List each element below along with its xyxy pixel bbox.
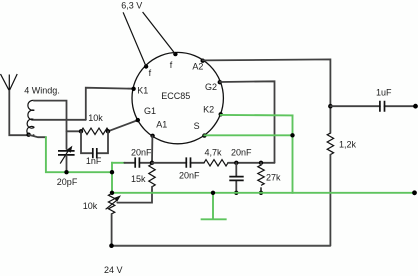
svg-text:24 V: 24 V xyxy=(104,265,123,275)
wire K2 green xyxy=(221,114,293,117)
node 1uF tap xyxy=(328,104,333,109)
svg-text:K2: K2 xyxy=(203,104,214,114)
wire green stub to C3 xyxy=(112,162,124,164)
svg-text:S: S xyxy=(194,121,200,131)
resistor R5 1,2k xyxy=(327,133,333,155)
wire heater left xyxy=(123,12,146,66)
pin A1 xyxy=(150,134,154,138)
ground xyxy=(202,193,226,220)
wire coil tap lead xyxy=(34,119,86,121)
tube U1 ECC85 envelope xyxy=(132,52,223,143)
wire diagonal R1 to G1 xyxy=(108,120,138,131)
resistor R3 4,7k xyxy=(204,160,228,166)
node S/K2 join xyxy=(290,133,294,137)
resistor R1 10k grid leak xyxy=(67,128,110,134)
svg-text:20nF: 20nF xyxy=(231,147,252,157)
potentiometer R6 10k xyxy=(106,194,121,246)
node green rail right end xyxy=(412,190,417,195)
wire A2 to HT line xyxy=(203,59,331,133)
wire S green xyxy=(204,134,292,136)
node coil bottom junction xyxy=(26,133,30,137)
node C5 bottom xyxy=(234,191,238,195)
wire K1 to coil tap xyxy=(86,88,134,120)
svg-text:G1: G1 xyxy=(144,106,156,116)
resistor R2 15k xyxy=(149,163,155,190)
wire green tuned circuit net xyxy=(46,137,112,172)
svg-text:10k: 10k xyxy=(83,201,98,211)
capacitor C4 20nF xyxy=(152,157,204,167)
node X junction xyxy=(150,161,154,165)
pin A2 xyxy=(201,59,205,63)
svg-text:A1: A1 xyxy=(156,120,167,130)
node 20pF bottom xyxy=(64,170,68,174)
pin f left xyxy=(144,64,148,68)
svg-text:10k: 10k xyxy=(88,113,103,123)
svg-text:1,2k: 1,2k xyxy=(339,140,357,150)
capacitor C6 1uF xyxy=(330,101,415,112)
wire coil bottom to green net xyxy=(29,135,46,138)
svg-text:20nF: 20nF xyxy=(131,148,152,158)
node 27k top xyxy=(259,161,263,165)
pin K2 xyxy=(219,112,223,116)
variable capacitor C1 20pF plates xyxy=(58,146,75,173)
svg-text:6,3 V: 6,3 V xyxy=(121,1,142,11)
svg-text:ECC85: ECC85 xyxy=(161,91,190,101)
svg-text:20pF: 20pF xyxy=(57,177,78,187)
wire G2 drop xyxy=(220,81,275,163)
svg-text:1nF: 1nF xyxy=(86,156,102,166)
node pot bottom xyxy=(109,243,114,248)
inductor L1 4 windings xyxy=(27,100,34,135)
wire A1 drop xyxy=(151,136,153,163)
wire green vertical xyxy=(111,163,113,193)
svg-text:G2: G2 xyxy=(205,82,217,92)
svg-text:1uF: 1uF xyxy=(376,88,392,98)
svg-text:4,7k: 4,7k xyxy=(205,147,223,157)
node R1 left xyxy=(79,129,83,133)
node R1 right xyxy=(106,129,110,133)
wire coil top lead to tuning cap xyxy=(34,101,67,149)
antenna xyxy=(1,74,18,91)
node C5 top xyxy=(234,161,238,165)
wire heater right xyxy=(143,12,176,54)
capacitor C3 20nF xyxy=(124,157,152,167)
node green tee xyxy=(110,170,114,174)
wire 15k bottom to wiper xyxy=(117,190,152,203)
pin K1 xyxy=(131,87,135,91)
node pot top xyxy=(110,191,114,195)
node ground tap xyxy=(211,191,215,195)
svg-text:27k: 27k xyxy=(266,173,281,183)
svg-text:A2: A2 xyxy=(192,61,203,71)
wire 24V rail xyxy=(112,245,331,247)
green rail xyxy=(112,192,415,194)
resistor R4 27k xyxy=(258,163,264,193)
pin G1 xyxy=(136,118,140,122)
node 27k bottom xyxy=(259,191,263,195)
pin f top xyxy=(173,52,177,56)
pin G2 xyxy=(218,80,222,84)
wire 1,2k to 24V rail xyxy=(329,155,331,246)
node output terminal xyxy=(413,104,418,109)
pin S xyxy=(202,133,206,137)
wire antenna stem xyxy=(9,91,28,135)
svg-text:4 Windg.: 4 Windg. xyxy=(24,85,60,95)
svg-text:15k: 15k xyxy=(131,174,146,184)
wire node line to G2 corner xyxy=(228,162,275,164)
svg-text:K1: K1 xyxy=(137,86,148,96)
wire green K2/S drop xyxy=(292,115,294,192)
svg-text:20nF: 20nF xyxy=(179,170,200,180)
capacitor C2 1nF xyxy=(81,131,108,158)
capacitor C5 20nF vertical xyxy=(229,163,243,193)
